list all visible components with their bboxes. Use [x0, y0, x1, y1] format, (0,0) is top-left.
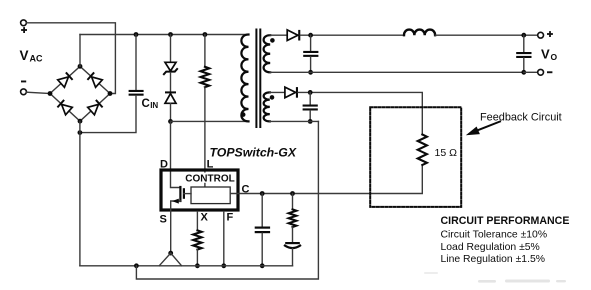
wire: F pin [223, 212, 225, 266]
svg-text:15 Ω: 15 Ω [435, 147, 458, 159]
capacitor CO [516, 52, 531, 54]
output terminal - [538, 69, 544, 75]
faint watermark [424, 272, 566, 283]
svg-text:Circuit Tolerance ±10%: Circuit Tolerance ±10% [441, 229, 548, 240]
wire: secondary1 top to D1 [270, 34, 287, 36]
svg-text:Feedback Circuit: Feedback Circuit [480, 111, 562, 123]
transformer primary polarity dot [241, 112, 246, 117]
svg-text:IN: IN [150, 101, 158, 110]
wire: clamp top [170, 35, 172, 63]
bridge rectifier edges [50, 66, 110, 121]
wire: L pin [204, 87, 206, 187]
node: C1/return [308, 70, 313, 75]
resistor R_X [193, 230, 201, 249]
zener VR1 [165, 62, 176, 71]
transformer secondary 1 winding [264, 35, 271, 72]
inductor L1 [404, 30, 435, 36]
blocking diode D3 [165, 91, 176, 93]
arrow to feedback box [474, 122, 500, 132]
svg-text:C: C [142, 98, 150, 110]
wire: out- stub [524, 71, 538, 73]
wire: left return riser [79, 121, 81, 266]
wire: out2+ [298, 92, 422, 134]
bridge vertex nodes [48, 91, 53, 96]
wire: CO top [523, 35, 525, 52]
node: rail/CIN [134, 32, 139, 37]
wire: out2 return stub [270, 120, 319, 122]
node: C/cap [260, 191, 265, 196]
node: C/RC [290, 191, 295, 196]
svg-text:CIRCUIT PERFORMANCE: CIRCUIT PERFORMANCE [441, 215, 570, 227]
AC input terminal + [21, 20, 27, 26]
wire: D pin [171, 121, 181, 187]
svg-text:L: L [207, 158, 214, 170]
AC input terminal - [21, 89, 27, 95]
IC U1 TOPSwitch-GX outline [161, 170, 238, 210]
secondary 1 polarity dot [270, 38, 275, 43]
control block box [191, 187, 230, 204]
wire: clamp bottom to drain node [170, 103, 172, 121]
bridge diode D_BR [88, 99, 104, 114]
CONTROL text background [184, 173, 236, 183]
node: X/rail [195, 263, 200, 268]
wire: control cap bottom [261, 233, 263, 266]
wire: source slant right [171, 253, 182, 266]
capacitor C1 [303, 51, 318, 53]
node: drain [168, 119, 173, 124]
wire: C pin to feedback return [230, 165, 422, 194]
svg-text:V: V [20, 48, 29, 63]
resistor R_F [289, 209, 297, 227]
node: rail/clamp [168, 32, 173, 37]
MOSFET gate wire [184, 193, 191, 195]
wire: control cap top [261, 194, 263, 227]
wire: inductor to output [435, 34, 538, 36]
bridge diode D_TL [58, 72, 74, 87]
svg-text:CONTROL: CONTROL [185, 173, 234, 184]
transformer core [255, 30, 257, 128]
resistor R_LS [201, 67, 210, 87]
wire: RC top [292, 194, 294, 210]
node: out+/CO [521, 33, 526, 38]
wire: source slant left [159, 253, 171, 266]
wire: C2 bottom [309, 111, 311, 122]
svg-text:V: V [541, 47, 550, 62]
svg-text:Line Regulation ±1.5%: Line Regulation ±1.5% [441, 254, 546, 265]
svg-text:X: X [201, 212, 209, 224]
capacitor CIN [129, 90, 144, 92]
node: D1/C1 [308, 33, 313, 38]
feedback circuit dashed box [370, 107, 461, 207]
wire: S pin to source node [170, 212, 172, 254]
wire: bridge top to DC+ rail [79, 35, 81, 67]
capacitor C_CTRL [255, 227, 270, 229]
output terminal + [538, 32, 544, 38]
svg-text:D: D [160, 158, 168, 170]
wire: clamp mid [170, 73, 172, 92]
wire: CIN bottom to bridge-bottom wire [80, 96, 136, 133]
node: rail/L-resistor [203, 32, 208, 37]
wire: drain node to primary bottom [171, 120, 249, 122]
wire: C1 bottom [310, 57, 312, 72]
capacitor C2 [303, 105, 318, 107]
bridge diode D_TR [87, 72, 103, 87]
wire: DC+ rail [80, 34, 249, 36]
node: source junction [168, 251, 173, 256]
node: cap/rail [260, 263, 265, 268]
wire: - terminal to bridge left vertex [27, 92, 50, 93]
transformer T1 primary winding [241, 35, 248, 122]
wire: L-resistor top [204, 35, 206, 67]
MOSFET gate bar [183, 189, 185, 197]
wire: source rail [80, 265, 293, 267]
MOSFET Q1 channel bar [179, 187, 181, 201]
bridge diode D_BL [57, 99, 73, 114]
svg-text:TOPSwitch-GX: TOPSwitch-GX [210, 146, 297, 160]
svg-text:O: O [551, 52, 558, 62]
wire: CO bottom [523, 58, 525, 72]
node: out-/CO [521, 70, 526, 75]
secondary 2 polarity dot [270, 95, 275, 100]
node: rail/loop [134, 263, 139, 268]
node: D2/C2 [308, 90, 313, 95]
svg-text:S: S [160, 214, 167, 226]
wire: R_X bottom [196, 250, 198, 266]
wire: CIN top [135, 35, 137, 90]
wire: + terminal to bridge right vertex [27, 23, 116, 94]
diode D1 [287, 30, 298, 41]
wire: RC bottom to rail corner [292, 249, 294, 266]
wire: out1+ rail [300, 34, 404, 36]
transformer secondary 2 winding [264, 92, 270, 121]
wire: X pin [196, 212, 198, 231]
node: F/rail [221, 263, 226, 268]
svg-text:AC: AC [30, 53, 43, 63]
wire: RC mid [292, 227, 294, 242]
wire: out1 return rail [270, 71, 524, 73]
capacitor C_F polarized [285, 242, 300, 244]
MOSFET source wire + arrow [171, 201, 181, 212]
svg-text:F: F [227, 212, 234, 224]
wire: lower return loop [136, 121, 318, 279]
diode D2 [285, 87, 296, 98]
resistor R_FB 15 ohm [418, 135, 427, 166]
node: CIN return [78, 130, 83, 135]
wire: C1 top [310, 35, 312, 51]
svg-text:Load Regulation ±5%: Load Regulation ±5% [441, 242, 540, 253]
wire: secondary2 top to D2 [270, 91, 285, 93]
wire: C2 top [309, 92, 311, 104]
node: C2/return [308, 119, 313, 124]
